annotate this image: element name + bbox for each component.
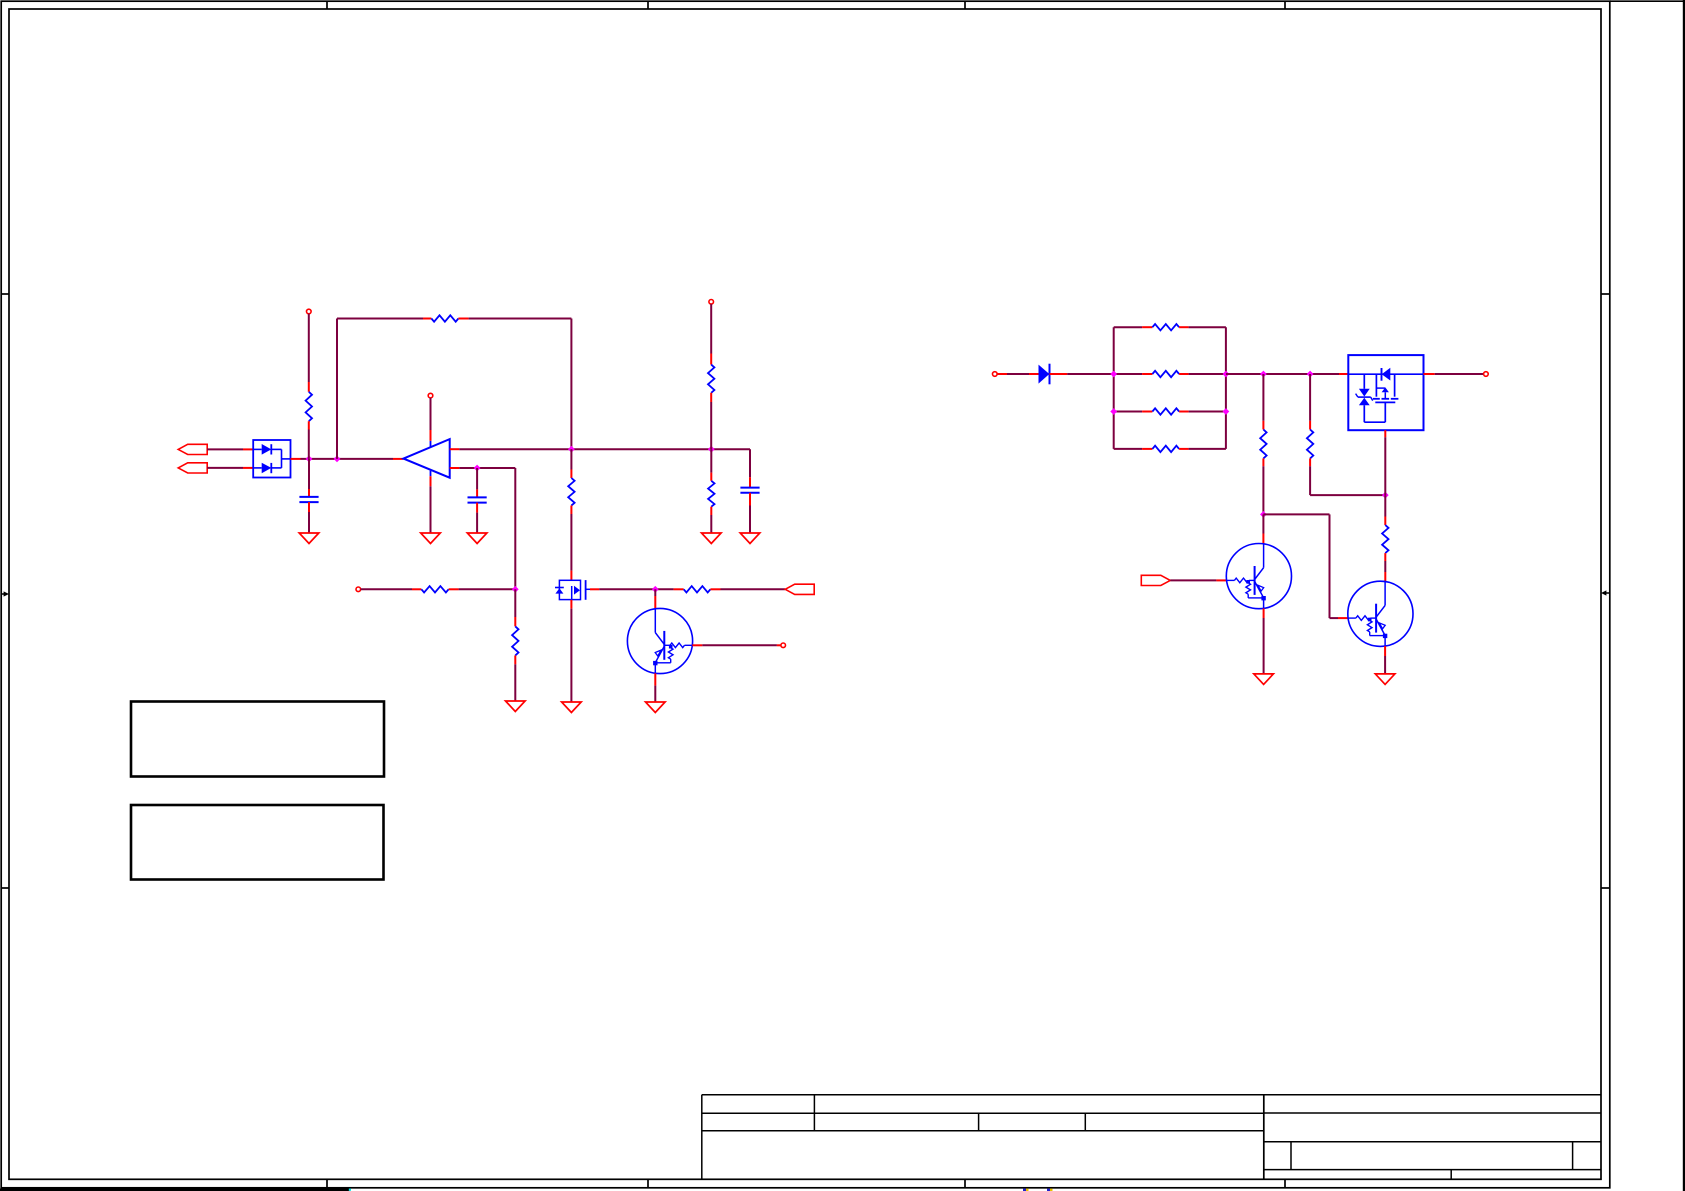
power pin P7 [1484,372,1489,377]
resistor R15 [1307,430,1313,459]
wire D2 to bank [1067,373,1114,375]
pin stub R14 bot [1262,458,1264,466]
pin stub C3 bot [749,493,751,506]
bank right rail [1225,327,1227,449]
pin stub R1 bot [308,421,310,429]
pin stub R6 bot [514,655,516,664]
pin stub R5 left [412,588,421,590]
pin stub R10 right [1179,326,1189,328]
wire bank row R10 left [1114,326,1142,328]
power pin P5 [781,643,786,648]
pin stub U2 out [1424,373,1435,375]
wire feedback right [469,319,572,450]
wire R1 to node [308,430,310,459]
pin stub D2 cathode [1050,373,1068,375]
resistor R11 [1152,371,1179,377]
wire node to C1 [308,459,310,489]
transistor Q3 [1348,581,1413,646]
node elbow [512,586,519,593]
pin stub R4 top [710,473,712,481]
wire P4 to R5 [361,588,412,590]
pin stub R5 right [449,588,459,590]
pin stub R10 left [1142,326,1152,328]
pin stub R12 left [1142,411,1152,413]
pin stub R16 bot [1384,553,1386,561]
wire col2 to R15 [1309,374,1311,421]
pin stub U2 gate [1384,430,1386,437]
pin stub R13 right [1179,448,1189,450]
ground G3 [467,533,487,544]
pin stub Q3 base [1338,617,1348,619]
connector J1 (input A) [178,444,207,454]
wire P1 to R1 [308,314,310,382]
pin stub U1 V+ [430,430,432,441]
wire C3 to gnd [749,506,751,534]
pin stub D1 in1 [243,448,253,450]
wire node to R16 [1384,495,1386,516]
wire Q2 emitter to gnd [1263,618,1265,674]
pin stub R11 right [1179,373,1189,375]
resistor R12 [1152,408,1179,414]
pin stub R3 bot [710,393,712,402]
ground G9 [1254,674,1274,685]
pin stub R7 bot [570,506,572,515]
wire Q2c to Q3 base [1263,514,1338,618]
wire node to Q2 [1262,514,1264,533]
pin stub Q1 base [692,644,702,646]
pin stub C1 bot [308,502,310,512]
wire bank row R11 right [1189,373,1226,375]
wire in- to elbow [459,468,515,589]
node bank left row3 [1110,408,1117,415]
node in+ divider [708,446,715,453]
ground G4 [702,533,722,544]
wire J2 to D1 [207,467,243,469]
wire feedback col to R7 [570,449,572,469]
pin stub R15 bot [1309,458,1311,466]
resistor R5 [421,586,448,592]
pin stub M1 source [570,600,572,609]
pin stub R8 left [674,588,684,590]
wire U1 V- to gnd [430,486,432,533]
transistor Q1 [627,608,692,673]
pin stub U1 V- [430,476,432,486]
pin stub R14 top [1262,421,1264,430]
node bank left mid [1110,371,1117,378]
node gate junction [1382,492,1389,499]
wire bank row R13 left [1114,448,1142,450]
wire R3 to node [710,402,712,449]
pin stub Q1 collector [654,589,656,608]
resistor R3 [708,365,714,393]
diode D2 [1039,364,1050,385]
wire P6 to D2 [1007,373,1029,375]
wire P3 to R3 [710,304,712,353]
dual diode D1 [253,440,290,478]
pin stub D1 in2 [243,467,253,469]
wire U2 to P7 [1435,373,1484,375]
resistor R10 [1152,324,1179,330]
pin stub Q2 base [1216,579,1226,581]
resistor R14 [1260,430,1266,459]
resistor R4 [708,481,714,507]
pin stub C1 top [308,489,310,497]
wire bank row R10 right [1189,326,1226,328]
pin stub R15 top [1309,421,1311,430]
pin stub R2 right [458,318,468,320]
wire R8 to tag [721,588,786,590]
wire node to R4 [710,449,712,472]
pin stub Q3 collector [1384,572,1386,582]
wire bank to U2 [1226,373,1339,375]
pin stub R12 right [1179,411,1189,413]
ground G8 [646,702,666,713]
wire Q1 emitter to gnd [654,686,656,702]
node bank right mid [1223,371,1230,378]
note box 1 [131,702,384,777]
resistor R13 [1152,446,1179,452]
ground G7 [562,702,582,713]
wire R15 elbow [1310,466,1385,495]
wire R5 to elbow node [459,588,516,590]
resistor R6 [512,626,518,655]
wire gate row [599,588,673,590]
pin stub Q2 emitter [1263,608,1265,618]
op-amp U1 [404,439,450,478]
wire feedback [337,319,423,459]
adjacent page bottom edge [0,1189,351,1191]
node in+ feedback [568,446,575,453]
wire R7 to M1 [570,514,572,571]
power pin P6 [993,372,998,377]
pin stub U1 in+ [450,448,460,450]
transistor Q2 [1226,544,1291,609]
node feedback join [334,456,341,463]
pin stub M1 gate [586,588,600,590]
wire J1 to D1 [207,448,243,450]
wire R6 to gnd [514,664,516,701]
wire bank row R12 left [1114,411,1142,413]
resistor R2 (feedback) [431,315,458,321]
pin stub R8 right [710,588,720,590]
pin stub M1 drain [570,571,572,581]
pin stub R2 left [423,318,431,320]
capacitor C1 [299,497,318,502]
wire C1 to gnd [308,512,310,533]
load switch U2 [1348,355,1423,430]
pin stub D2 anode [1029,373,1039,375]
pin stub D2 wire [997,373,1007,375]
pin stub Q2 collector [1262,534,1264,544]
resistor R16 [1382,525,1388,553]
power pin P1 [307,309,312,314]
node C2 tap [474,465,481,472]
node at R1 bottom [306,456,313,463]
left center arrow [1,591,9,596]
connector J4 (enable) [1141,575,1170,585]
right center arrow [1601,590,1610,595]
wire C2 top [476,468,478,489]
wire bank row R13 right [1189,448,1226,450]
pin stub U2 in [1339,373,1348,375]
ground G2 [421,533,441,544]
title block [702,1095,1601,1180]
pin stub R4 bot [710,507,712,515]
resistor R7 [568,478,574,506]
pin stub U1 out [393,458,404,460]
pin stub R1 top [308,382,310,392]
mosfet M1 [555,580,586,600]
wire col1 to R14 [1262,374,1264,421]
pin stub R11 left [1142,373,1152,375]
connector J2 (input B) [178,463,207,473]
pin stub Q1 emitter [654,673,656,685]
ground G10 [1375,674,1395,685]
pin stub C2 bot [476,503,478,513]
pin stub C2 top [476,489,478,497]
resistor R1 [306,392,312,421]
wire bank row R11 left [1114,373,1142,375]
pin stub C3 top [749,477,751,487]
wire D1 to opamp output [301,458,394,460]
wire Q1 base to pin [702,644,777,646]
adjacent page right edge [1610,0,1685,1191]
node bank right row3 [1223,408,1230,415]
wire R4 to gnd [710,515,712,533]
node col1 top [1260,371,1267,378]
ground G5 [740,533,760,544]
resistor R8 [684,586,711,592]
wire Q3 emitter to gnd [1384,656,1386,674]
connector J3 (output) [785,584,814,594]
wire bank row R12 right [1189,411,1226,413]
node col2 top [1307,371,1314,378]
power pin P2 [428,393,433,398]
note box 2 [131,805,384,880]
wire C2 to gnd [476,513,478,533]
pin stub D1 out [291,458,301,460]
node Q1 collector [652,586,659,593]
capacitor C2 [468,497,487,502]
node Q2 collector [1260,511,1267,518]
pin stub Q1 base pin [777,644,781,646]
pin stub R7 top [570,470,572,479]
power pin P3 [709,300,714,305]
pin stub R13 left [1142,448,1152,450]
wire M1 source to gnd [570,609,572,702]
pin stub R6 top [514,617,516,626]
wire R14 to node [1262,466,1264,514]
wire elbow down [514,589,516,617]
ground G1 [299,533,319,544]
pin stub Q3 emitter [1384,646,1386,656]
wire U2 gate to node [1384,437,1386,495]
pin stub R16 top [1384,517,1386,526]
pin stub R3 top [710,354,712,365]
ground G6 [506,701,526,712]
wire P2 to U1 [430,398,432,430]
bank left rail [1113,327,1115,449]
wire R16 to Q3 [1384,561,1386,572]
wire in+ rail [459,449,750,477]
capacitor C3 [740,488,759,493]
pin stub U1 in- [450,467,460,469]
power pin P4 [356,587,361,592]
wire J4 to Q2 [1170,579,1216,581]
page number glyphs [1023,1189,1053,1191]
